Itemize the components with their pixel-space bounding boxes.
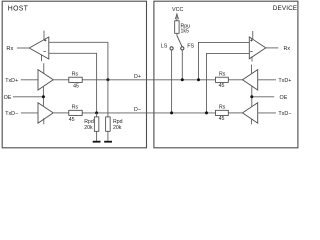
svg-text:OE: OE bbox=[280, 95, 288, 101]
wire Rpd right to ground bbox=[107, 131, 109, 141]
wire TxD+ input (device) bbox=[258, 79, 276, 81]
svg-text:DEVICE: DEVICE bbox=[273, 5, 297, 12]
wire TxD+ output to Rs (host) bbox=[53, 79, 69, 81]
svg-text:TxD−: TxD− bbox=[278, 111, 291, 117]
resistor Rpu 1k5 (device) bbox=[175, 21, 190, 35]
wire OE (host) bbox=[13, 96, 43, 98]
resistor Rs 45 upper (device) bbox=[216, 72, 229, 89]
svg-text:D−: D− bbox=[134, 107, 141, 113]
wire D- node to Rpd (host) bbox=[96, 113, 98, 117]
wire Rs to TxD- buffer (device) bbox=[228, 112, 242, 114]
wire D+ node to Rpd (host) bbox=[107, 80, 109, 117]
buffer TxD+ driver (host) bbox=[38, 63, 53, 90]
wire D- bus bbox=[82, 112, 215, 114]
junction D+ node (host) bbox=[106, 78, 109, 81]
wire Rx - input to D- (device) bbox=[207, 53, 250, 113]
resistor Rs 45 lower (host) bbox=[69, 105, 82, 124]
svg-text:Rs: Rs bbox=[219, 72, 226, 78]
buffer TxD+ driver (device) bbox=[243, 65, 258, 91]
wire Rpd left to ground bbox=[96, 131, 98, 141]
junction D- node (host) bbox=[95, 111, 98, 114]
svg-text:1k5: 1k5 bbox=[181, 28, 189, 34]
svg-text:OE: OE bbox=[4, 95, 12, 101]
wire OE (device) bbox=[252, 96, 274, 98]
junction Rx+ on D+ (device) bbox=[197, 78, 200, 81]
junction FS on D+ bbox=[181, 78, 184, 81]
svg-text:TxD−: TxD− bbox=[5, 111, 18, 117]
svg-text:45: 45 bbox=[219, 83, 225, 89]
wire Rx output (device) bbox=[266, 47, 279, 49]
svg-text:20k: 20k bbox=[113, 125, 122, 131]
svg-text:Rs: Rs bbox=[72, 105, 79, 111]
buffer TxD- driver (device) bbox=[243, 103, 258, 125]
svg-text:LS: LS bbox=[161, 44, 168, 50]
wire LS contact to D- (device) bbox=[171, 50, 173, 113]
op-amp differential receiver (device) bbox=[249, 31, 265, 62]
wire TxD- output to Rs (host) bbox=[53, 112, 69, 114]
svg-text:VCC: VCC bbox=[172, 7, 183, 13]
switch contact FS bbox=[181, 47, 184, 50]
wire OE to both buffers (host) bbox=[42, 86, 44, 106]
resistor Rpd 20k right (host) bbox=[106, 117, 123, 131]
wire FS contact to D+ (device) bbox=[181, 50, 183, 80]
switch contact LS bbox=[170, 47, 173, 50]
svg-text:Rs: Rs bbox=[72, 72, 79, 78]
svg-text:20k: 20k bbox=[84, 125, 93, 131]
switch lever Rpu to FS contact bbox=[177, 36, 182, 47]
wire Rx output (host) bbox=[17, 47, 29, 49]
svg-text:D+: D+ bbox=[134, 74, 141, 80]
DEVICE box bbox=[154, 1, 298, 148]
svg-text:45: 45 bbox=[69, 117, 75, 123]
junction Rx- on D- (device) bbox=[205, 111, 208, 114]
power VCC symbol (device) bbox=[175, 14, 178, 19]
wire D+ bus bbox=[82, 79, 215, 81]
junction OE (device) bbox=[250, 95, 253, 98]
op-amp differential receiver (host) bbox=[29, 31, 49, 62]
wire TxD- input (host) bbox=[21, 112, 38, 114]
wire Rpu lower lead (device) bbox=[176, 33, 178, 35]
svg-text:45: 45 bbox=[73, 84, 79, 90]
svg-text:Rs: Rs bbox=[219, 105, 226, 111]
svg-text:Rx: Rx bbox=[6, 46, 13, 52]
svg-text:TxD+: TxD+ bbox=[278, 78, 291, 84]
wire Rx + input to D+ (device) bbox=[199, 42, 250, 79]
svg-text:HOST: HOST bbox=[8, 6, 29, 13]
resistor Rpd 20k left (host) bbox=[84, 117, 99, 131]
svg-text:FS: FS bbox=[187, 44, 194, 50]
wire Rx - input to D- (host) bbox=[49, 53, 97, 113]
svg-text:Rx: Rx bbox=[284, 46, 291, 52]
HOST box bbox=[2, 1, 146, 148]
resistor Rs 45 lower (device) bbox=[216, 105, 229, 122]
wire VCC to Rpu (device) bbox=[176, 17, 178, 21]
junction LS on D- bbox=[170, 111, 173, 114]
junction OE (host) bbox=[42, 95, 45, 98]
buffer TxD- driver (host) bbox=[38, 103, 53, 125]
svg-text:45: 45 bbox=[219, 116, 225, 122]
wire TxD+ input (host) bbox=[21, 79, 38, 81]
resistor Rs 45 upper (host) bbox=[69, 72, 82, 90]
wire Rs to TxD+ buffer (device) bbox=[228, 79, 242, 81]
wire Rx + input to D+ (host) bbox=[49, 42, 108, 80]
svg-text:TxD+: TxD+ bbox=[5, 78, 18, 84]
wire TxD- input (device) bbox=[258, 112, 276, 114]
wire OE to both buffers (device) bbox=[251, 86, 253, 107]
ground right (host) bbox=[104, 141, 112, 143]
ground left (host) bbox=[93, 141, 101, 143]
